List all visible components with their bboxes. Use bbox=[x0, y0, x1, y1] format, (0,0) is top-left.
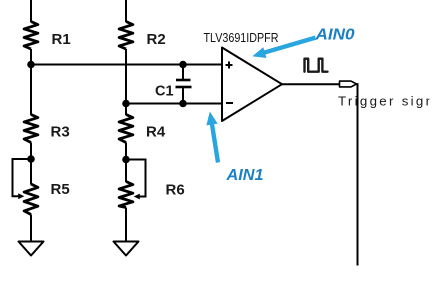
svg-text:C1: C1 bbox=[155, 84, 174, 100]
pulse waveform icon bbox=[305, 59, 328, 72]
annotation arrow AIN0 bbox=[252, 38, 315, 58]
op-amp + pin mark bbox=[226, 62, 233, 69]
node D junction dot bbox=[122, 156, 130, 164]
svg-text:R2: R2 bbox=[147, 31, 166, 48]
node junction dot C1 bottom bbox=[179, 100, 187, 108]
annotation arrow AIN1 bbox=[206, 112, 218, 163]
resistor R2 bbox=[119, 22, 133, 50]
node B junction dot bbox=[122, 100, 130, 108]
svg-text:R5: R5 bbox=[51, 181, 70, 198]
wire R3 bottom to node C bbox=[30, 143, 32, 160]
resistor R3 bbox=[24, 115, 38, 143]
ground (left) bbox=[19, 242, 44, 256]
svg-text:R1: R1 bbox=[52, 31, 71, 48]
svg-text:R3: R3 bbox=[51, 124, 70, 141]
wire node B down to R4 bbox=[125, 104, 127, 116]
wire noninverting net (node A to op-amp +) bbox=[31, 64, 222, 66]
op-amp - pin mark bbox=[226, 102, 233, 104]
wire inverting net (node B to op-amp -) bbox=[126, 103, 222, 105]
ground (right) bbox=[114, 242, 139, 256]
wire right rail top bbox=[125, 0, 127, 22]
resistor R6 bbox=[119, 182, 133, 208]
wire node C down to R5 bbox=[30, 159, 32, 185]
op-amp U1 comparator bbox=[222, 48, 282, 122]
node C junction dot bbox=[27, 155, 35, 163]
potentiometer R5 wiper arm bbox=[13, 159, 32, 199]
wire node D down to R6 bbox=[125, 160, 127, 183]
resistor R4 bbox=[119, 115, 133, 143]
wire R1 bottom to node A bbox=[30, 49, 32, 65]
svg-text:R6: R6 bbox=[166, 182, 185, 199]
wire R4 bottom to node D bbox=[125, 143, 127, 160]
wire R5 bottom to ground bbox=[30, 215, 32, 243]
wire R2 bottom crossing to node B bbox=[125, 49, 127, 104]
node A junction dot bbox=[27, 61, 35, 69]
capacitor C1 bbox=[176, 65, 192, 104]
resistor R5 bbox=[24, 184, 38, 215]
wire op-amp output bbox=[282, 83, 340, 85]
svg-text:TLV3691IDPFR: TLV3691IDPFR bbox=[204, 31, 279, 45]
svg-text:Trigger signal: Trigger signal bbox=[338, 93, 434, 108]
svg-text:AIN0: AIN0 bbox=[314, 27, 354, 44]
wire left rail top bbox=[30, 0, 32, 22]
svg-text:R4: R4 bbox=[146, 124, 166, 141]
resistor R1 bbox=[24, 22, 38, 50]
node junction dot C1 top bbox=[179, 61, 187, 69]
potentiometer R6 wiper arm bbox=[126, 160, 146, 200]
wire R6 bottom to ground bbox=[125, 208, 127, 243]
wire output down right side bbox=[357, 84, 358, 265]
svg-text:AIN1: AIN1 bbox=[225, 167, 263, 184]
wire node A down to R3 bbox=[30, 65, 32, 116]
output port connector bbox=[340, 81, 357, 87]
